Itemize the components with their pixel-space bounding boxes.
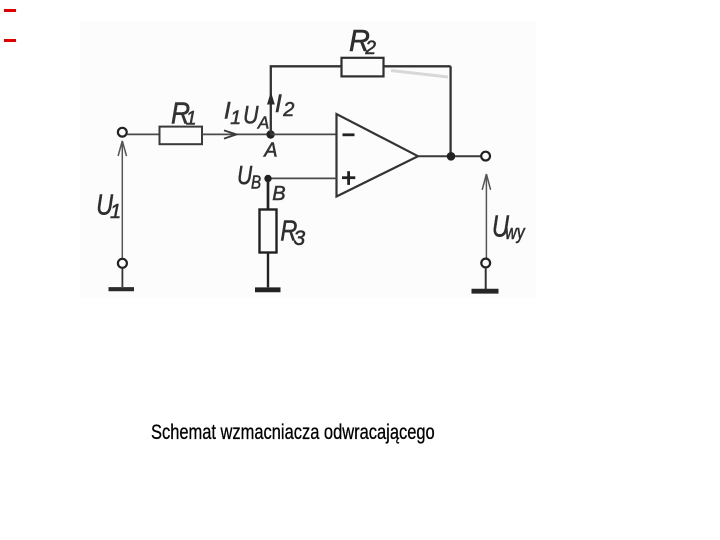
output node [447,152,456,161]
svg-text:1: 1 [230,107,241,129]
node A [266,130,274,138]
node B [264,175,271,182]
svg-text:wy: wy [505,221,525,243]
svg-text:2: 2 [364,38,376,59]
ground (R3) [255,287,281,292]
wire input terminal to R1 [127,133,160,135]
label B (node) [272,183,285,205]
label I2 [275,90,294,121]
label R3 [280,214,305,250]
svg-text:B: B [251,172,261,193]
input lower terminal [118,259,127,268]
label A (node) [263,140,277,162]
feedback wire down to output node [449,66,451,156]
red mark 2 (top left) [4,39,16,42]
label UA [243,101,269,133]
svg-text:A: A [257,112,269,133]
wire node A up to feedback branch [270,66,272,134]
ground (output) [472,289,499,294]
label Uwy [492,210,525,244]
wire output node to output terminal [455,155,481,157]
svg-text:I: I [275,90,282,118]
label R1 [171,97,196,131]
resistor R3 [260,210,277,253]
svg-text:1: 1 [110,201,121,223]
resistor R2 [342,58,384,77]
feedback wire top right segment [384,65,451,67]
scan smudge under feedback wire [391,71,448,78]
wire node B down to R3 [267,179,270,210]
feedback wire top left segment [270,65,342,67]
plus sign (non-inverting input) [342,171,355,185]
current arrow I1 [224,130,237,138]
wire R3 to ground [267,253,269,288]
svg-text:A: A [263,140,277,162]
wire R1 to node A [202,133,268,135]
caption text [151,421,435,445]
red mark 1 (top left) [4,9,16,12]
output lower terminal [481,259,490,268]
label I1 [224,98,241,130]
svg-text:2: 2 [282,99,294,121]
voltage arrow Uwy [482,174,490,258]
minus sign (inverting input) [343,133,355,136]
svg-text:1: 1 [186,108,197,129]
ground (input) [109,287,135,291]
wire lower terminal to ground (input) [121,268,123,287]
svg-text:3: 3 [294,227,306,250]
svg-text:B: B [272,183,285,205]
svg-text:U: U [243,101,259,129]
label UB [237,161,261,193]
voltage arrow U1 [118,141,126,258]
resistor R1 [160,127,203,145]
current arrow I2 [267,92,275,105]
wire op-amp output to node [418,155,447,157]
scanned image background [80,21,536,298]
label U1 [96,188,121,223]
wire lower terminal to ground (output) [485,268,487,290]
input terminal (upper left) [118,128,127,137]
op-amp U1 [337,114,419,197]
output terminal (upper right) [481,152,490,161]
wire node A to op-amp inverting input [271,133,337,135]
label R2 [349,24,376,59]
wire node B to op-amp non-inverting input [268,177,337,179]
